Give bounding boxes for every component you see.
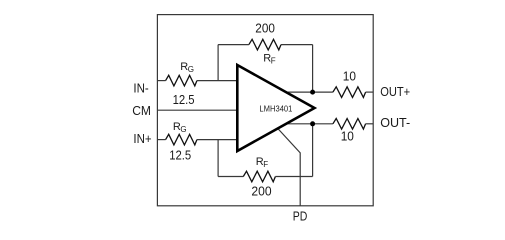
wire vertical top feedback to OUT+ node	[312, 45, 314, 93]
wire OUT- from amp to resistor	[284, 123, 333, 125]
wire OUT- resistor to box edge	[366, 123, 374, 125]
svg-text:CM: CM	[132, 103, 151, 118]
outer boundary box	[157, 15, 373, 206]
svg-text:10: 10	[343, 69, 356, 84]
svg-text:PD: PD	[293, 209, 308, 224]
junction node OUT+	[310, 90, 315, 95]
wire IN- input lead	[157, 80, 165, 82]
svg-text:F: F	[271, 57, 276, 66]
wire OUT+ from amp to resistor	[284, 91, 333, 93]
wire vertical feedback tap (bottom left)	[217, 140, 219, 177]
svg-text:10: 10	[341, 129, 354, 144]
svg-text:200: 200	[255, 21, 275, 36]
op-amp U1 LMH3401 triangle	[237, 65, 314, 151]
wire R_G (IN+) to amp input	[197, 139, 239, 141]
svg-text:G: G	[188, 65, 194, 74]
resistor R_F (top feedback)	[249, 39, 281, 50]
svg-text:F: F	[263, 160, 268, 169]
resistor 10 (OUT+ series)	[333, 87, 366, 98]
wire OUT+ resistor to box edge	[366, 91, 374, 93]
wire CM input	[157, 109, 238, 111]
svg-text:200: 200	[251, 184, 271, 199]
wire bottom feedback left segment	[218, 176, 243, 178]
resistor R_F (bottom feedback)	[243, 171, 275, 182]
svg-text:G: G	[180, 125, 186, 134]
svg-text:IN-: IN-	[133, 80, 148, 95]
svg-text:OUT+: OUT+	[380, 84, 410, 99]
resistor R_G (IN+ path)	[166, 134, 197, 145]
svg-text:IN+: IN+	[133, 131, 151, 146]
svg-text:LMH3401: LMH3401	[259, 105, 293, 114]
wire top feedback left segment	[218, 44, 249, 46]
svg-text:12.5: 12.5	[173, 92, 195, 107]
resistor R_G (IN- path)	[166, 75, 197, 86]
wire vertical feedback tap (top left)	[217, 45, 219, 81]
wire vertical bottom feedback to OUT- node	[312, 124, 314, 177]
wire top feedback right segment	[281, 44, 313, 46]
junction node OUT-	[310, 121, 315, 126]
wire R_G (IN-) to amp input	[197, 80, 239, 82]
svg-text:OUT-: OUT-	[380, 115, 410, 130]
svg-text:12.5: 12.5	[169, 148, 191, 163]
resistor 10 (OUT- series)	[333, 119, 366, 130]
wire bottom feedback right segment	[275, 176, 312, 178]
wire IN+ input lead	[157, 139, 165, 141]
wire PD control from amp edge	[278, 129, 300, 206]
